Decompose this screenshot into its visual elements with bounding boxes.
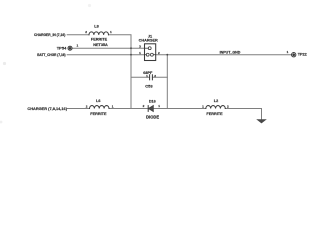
wire C53 right lead [152, 76, 167, 78]
svg-text:1: 1 [287, 50, 289, 54]
svg-text:3: 3 [139, 45, 141, 49]
inductor L6 [90, 106, 110, 109]
ground [256, 119, 267, 123]
faint smudge left [3, 62, 6, 65]
svg-text:1: 1 [110, 30, 112, 34]
svg-text:2: 2 [158, 51, 160, 55]
connector J1 box [145, 44, 156, 61]
svg-text:1: 1 [158, 104, 160, 108]
inductor L2 [206, 106, 226, 109]
svg-text:TP54: TP54 [57, 46, 67, 51]
svg-text:FERRITE: FERRITE [90, 112, 107, 116]
svg-text:68PF: 68PF [143, 71, 153, 75]
svg-text:C53: C53 [145, 84, 153, 89]
svg-text:L2: L2 [214, 99, 218, 103]
wire INPUT_GND from J1 pin 2 to TP22 [156, 54, 292, 56]
junction at INPUT_GND row and right rail [166, 54, 168, 56]
wire D16 to L2 [153, 108, 206, 110]
svg-text:INPUT_GND: INPUT_GND [220, 51, 241, 55]
svg-text:2: 2 [154, 74, 156, 78]
diode D16 triangle fill [149, 106, 154, 112]
capacitor C53 plates [149, 75, 151, 80]
svg-text:CHARGER: CHARGER [139, 39, 158, 43]
svg-text:1: 1 [202, 105, 204, 109]
svg-text:1: 1 [77, 43, 79, 47]
svg-text:1: 1 [139, 51, 141, 55]
wire CHARGER_IN to L8 [67, 34, 89, 36]
svg-text:NET35A: NET35A [93, 43, 108, 47]
faint smudge top [88, 4, 91, 7]
wire CHARGER to L6 [68, 108, 90, 110]
faint smudge bottom left [0, 121, 2, 124]
svg-text:2: 2 [227, 105, 229, 109]
wire L2 to ground [225, 109, 261, 120]
diode D16 bar and triangle [148, 106, 153, 112]
svg-text:DIODE: DIODE [146, 114, 159, 119]
svg-text:BATT_CHGR (7,16): BATT_CHGR (7,16) [37, 53, 65, 57]
svg-text:1: 1 [112, 105, 114, 109]
svg-text:FERRITE: FERRITE [206, 112, 223, 116]
test point TP22 [292, 53, 296, 57]
J1 pin 3 circle [148, 47, 151, 50]
inductor L8 [89, 32, 109, 35]
svg-text:FERRITE: FERRITE [91, 38, 108, 42]
J1 pin 2 lead [153, 54, 155, 56]
junction at BATT_CHGR row and left rail [130, 54, 132, 56]
J1 pin 2 circle [150, 53, 153, 56]
svg-text:TP22: TP22 [298, 53, 307, 57]
wire L8 to corner, left rail down [109, 35, 132, 109]
svg-text:1: 1 [146, 74, 148, 78]
svg-text:CHARGER_IN (7,16): CHARGER_IN (7,16) [34, 33, 65, 37]
svg-text:2: 2 [86, 104, 88, 108]
J1 pin 3 lead [145, 47, 149, 49]
wire right rail [166, 55, 168, 109]
svg-text:2: 2 [143, 104, 145, 108]
junction at TP54 row and left rail [130, 47, 132, 49]
wire L6 to D16 [109, 108, 148, 110]
wire BATT_CHGR to J1 pin 1 [67, 54, 144, 56]
svg-text:D16: D16 [149, 99, 156, 103]
svg-text:2: 2 [85, 30, 87, 34]
J1 pin 1 lead [145, 54, 147, 56]
svg-text:CHARGER (7,8,14,16): CHARGER (7,8,14,16) [27, 106, 67, 111]
wire C53 left lead [131, 76, 150, 78]
svg-text:L8: L8 [94, 25, 98, 29]
J1 pin 1 circle [146, 53, 149, 56]
svg-text:L6: L6 [96, 99, 100, 103]
wire TP54 to J1 pin 3 [72, 47, 145, 49]
test point TP54 [68, 46, 72, 50]
